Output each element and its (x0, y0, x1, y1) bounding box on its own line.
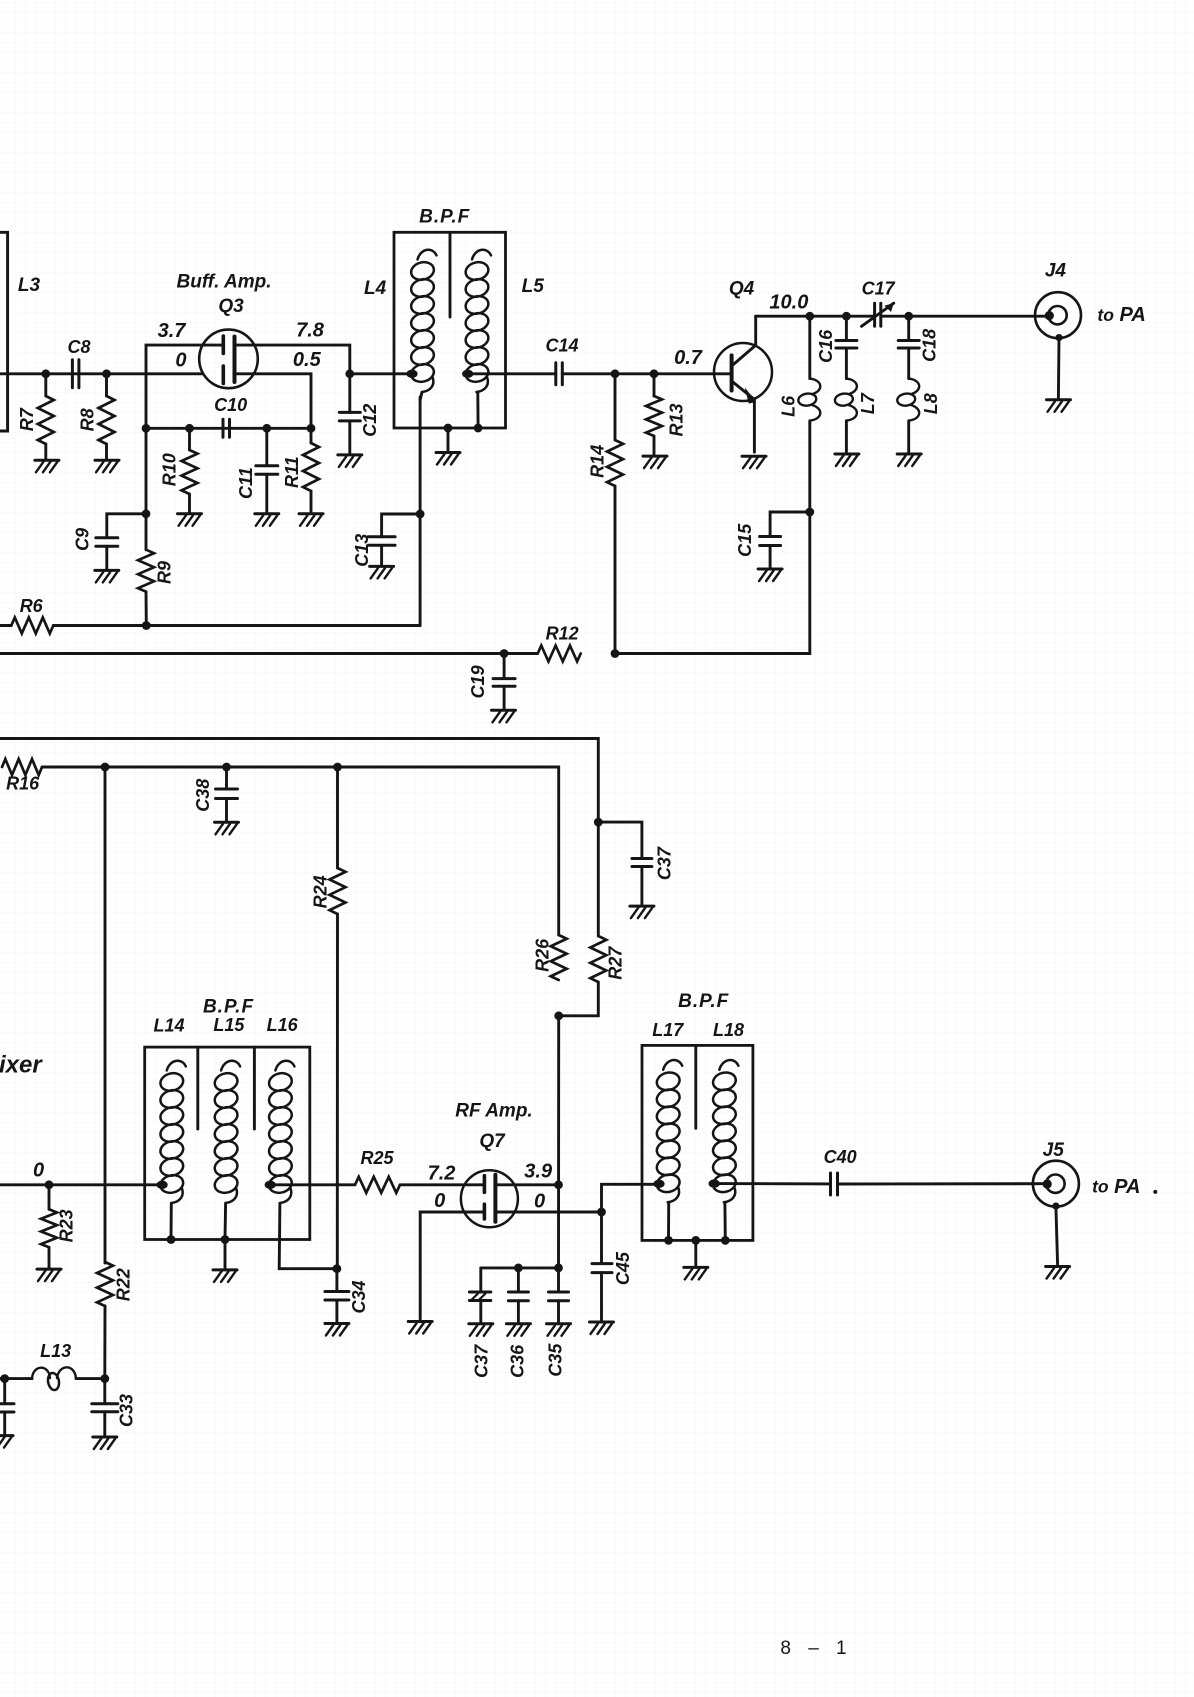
resistor R9 (145, 514, 148, 550)
node C34 (333, 1264, 342, 1273)
capacitor C19 (503, 654, 506, 679)
resistor R13 (653, 374, 656, 396)
wire: riser to C13 / L4 (419, 397, 422, 626)
capacitor C14 (556, 363, 563, 385)
wire: L6 to bias line (615, 512, 810, 654)
capacitor at left edge (3, 1379, 6, 1404)
band pass filter box (L17/L18) (642, 1045, 753, 1240)
BPF2 ground (224, 1240, 227, 1268)
node R23 (45, 1180, 54, 1189)
wire: source lead (0.5) (235, 374, 311, 429)
svg-text:J4: J4 (1045, 261, 1067, 282)
inductor L7 (845, 348, 848, 379)
svg-text:C15: C15 (735, 523, 755, 557)
svg-text:R7: R7 (17, 407, 37, 431)
resistor R16 (2, 759, 42, 775)
svg-text:J5: J5 (1043, 1140, 1065, 1161)
inductor L18 (711, 1060, 738, 1202)
transistor Q4 (NPN) (714, 343, 772, 401)
node C15 (805, 508, 814, 517)
svg-text:L16: L16 (267, 1015, 299, 1035)
ground under C45 (590, 1322, 614, 1334)
inductor L5 (464, 250, 491, 392)
node bias column (101, 763, 110, 772)
svg-text:R13: R13 (666, 403, 686, 436)
node: R7 junction (41, 369, 50, 378)
inductor L6 (808, 316, 811, 378)
capacitor C10 (223, 419, 230, 437)
svg-text:L15: L15 (213, 1015, 245, 1035)
resistor R22 (97, 1262, 113, 1306)
svg-text:0.7: 0.7 (674, 347, 703, 369)
node C13 junction (416, 510, 425, 519)
svg-text:8 – 1: 8 – 1 (780, 1638, 852, 1659)
band pass filter box (L4/L5) (394, 232, 506, 428)
svg-text:C13: C13 (352, 534, 372, 567)
ground under C11 (255, 514, 279, 526)
wire: main line to BPF (350, 372, 412, 375)
resistor R8 (105, 374, 108, 396)
svg-text:L14: L14 (153, 1016, 184, 1036)
capacitor C37 (upper) (598, 822, 642, 858)
trimmer capacitor C17 (873, 303, 876, 326)
svg-text:C18: C18 (920, 329, 940, 362)
node C38 (222, 763, 231, 772)
coupling divider (449, 232, 452, 317)
svg-text:Q7: Q7 (479, 1131, 506, 1152)
BPF ground (444, 424, 453, 433)
ground under C38 (215, 822, 239, 834)
resistor R26 (551, 935, 567, 980)
svg-text:R10: R10 (160, 453, 180, 486)
wire: drain column (557, 1016, 560, 1268)
band pass filter box (L14/L15/L16) (145, 1047, 310, 1239)
node C37 (upper) (594, 818, 603, 827)
wire: gate2 lead (3.7) (146, 345, 223, 428)
svg-text:R12: R12 (546, 624, 579, 644)
svg-text:C9: C9 (73, 528, 93, 551)
node C18 (904, 312, 913, 321)
wire: gate bias column (145, 428, 148, 514)
svg-text:0.5: 0.5 (293, 349, 322, 371)
collector rail 10.0 (756, 315, 875, 318)
L4 bottom lead (420, 392, 422, 400)
node L6 (805, 312, 814, 321)
capacitor C9 (107, 514, 146, 538)
capacitor C18 (907, 316, 910, 340)
resistor R24 (336, 767, 339, 868)
svg-text:R11: R11 (282, 456, 302, 488)
wire: R6 bias line (53, 624, 420, 627)
inductor L14 (159, 1061, 186, 1203)
Q4 collector (732, 316, 756, 366)
ground under C33 (93, 1437, 117, 1449)
box edge of oscillator unit (L3) (0, 232, 8, 431)
capacitor C34 (335, 1269, 338, 1292)
svg-text:C16: C16 (816, 329, 836, 363)
resistor R7 (44, 374, 47, 396)
svg-text:C10: C10 (214, 395, 247, 415)
ground under R11 (299, 514, 323, 526)
svg-text:L8: L8 (921, 393, 941, 414)
svg-text:Mixer: Mixer (0, 1051, 43, 1078)
J5 ground lead (1052, 1203, 1059, 1210)
transistor Q7 (dual-gate FET, RF Amp) (461, 1170, 518, 1227)
ground under C12 (338, 455, 362, 467)
svg-text:3.7: 3.7 (158, 320, 187, 342)
svg-text:7.8: 7.8 (296, 319, 325, 341)
svg-text:L13: L13 (40, 1341, 71, 1361)
svg-text:C38: C38 (193, 779, 213, 812)
resistor R14 (614, 374, 617, 440)
svg-text:R14: R14 (588, 445, 608, 478)
L16 bottom lead (279, 1203, 337, 1268)
ground under C37 (630, 906, 654, 918)
svg-text:C37: C37 (471, 1344, 491, 1378)
svg-text:L18: L18 (713, 1020, 744, 1040)
resistor R10 (188, 428, 191, 450)
ground under C34 (325, 1324, 349, 1336)
ground under R10 (178, 514, 202, 526)
svg-text:R9: R9 (154, 561, 174, 584)
resistor R11 (310, 428, 313, 443)
resistor R27 (597, 822, 600, 936)
capacitor C16 (845, 316, 848, 340)
ground under C19 (492, 710, 516, 722)
svg-text:to PA: to PA (1092, 1176, 1140, 1198)
svg-text:RF Amp.: RF Amp. (455, 1101, 532, 1122)
svg-text:L17: L17 (652, 1020, 684, 1040)
svg-text:Q3: Q3 (218, 296, 244, 317)
J4 ground lead (1055, 334, 1062, 341)
ground under R7 (35, 460, 59, 472)
svg-text:C45: C45 (613, 1251, 633, 1285)
svg-text:R23: R23 (57, 1209, 77, 1242)
svg-text:0: 0 (175, 349, 186, 371)
capacitor C33 (103, 1379, 106, 1404)
svg-text:L3: L3 (18, 275, 41, 296)
node L13/C33 (100, 1374, 109, 1383)
resistor R6 (0, 624, 11, 627)
capacitor C35 (557, 1268, 560, 1292)
svg-text:10.0: 10.0 (769, 291, 808, 313)
svg-text:7.2: 7.2 (428, 1163, 456, 1185)
wire: C10 bias row (146, 427, 311, 430)
capacitor C8 (72, 360, 79, 388)
wire to J5 (838, 1182, 1047, 1185)
svg-text:L5: L5 (522, 276, 545, 297)
capacitor C40 (831, 1173, 838, 1195)
ground under C13 (370, 566, 394, 578)
bypass row under Q7 (481, 1266, 559, 1269)
svg-text:C33: C33 (116, 1394, 136, 1427)
capacitor C45 (600, 1212, 603, 1264)
svg-text:R16: R16 (6, 773, 40, 793)
svg-text:to PA: to PA (1097, 304, 1145, 326)
ground under C37 (469, 1324, 493, 1336)
svg-text:R24: R24 (310, 875, 330, 908)
svg-text:R27: R27 (606, 946, 626, 980)
Q7 source lead (0) (495, 1211, 601, 1214)
wire: BPF2 output (270, 1183, 355, 1186)
svg-text:L7: L7 (858, 392, 878, 414)
BPF3 ground (691, 1236, 700, 1245)
coupling divider (694, 1045, 697, 1128)
svg-text:0: 0 (33, 1159, 44, 1181)
capacitor C36 (517, 1268, 520, 1292)
node R24 (333, 763, 342, 772)
wire: BPF output (468, 372, 556, 375)
capacitor C38 (225, 767, 228, 789)
wire: BPF3 output (714, 1182, 830, 1185)
wire: bias line left (0, 652, 538, 655)
inductor L15 (213, 1061, 240, 1203)
resistor R23 (48, 1185, 51, 1210)
svg-text:C14: C14 (545, 335, 578, 355)
svg-text:C17: C17 (862, 278, 896, 298)
ground under L8 (897, 454, 921, 466)
svg-text:Q4: Q4 (729, 279, 755, 300)
resistor R12 (538, 646, 581, 662)
wire to Q4 (562, 372, 731, 375)
ground under C15 (758, 569, 782, 581)
wire: R22 to L13 (103, 1306, 106, 1379)
ground under R23 (37, 1269, 61, 1281)
node C16 (842, 312, 851, 321)
svg-text:C19: C19 (468, 665, 488, 698)
L5 bottom lead (476, 392, 479, 428)
svg-text:R25: R25 (360, 1148, 394, 1168)
svg-text:C37: C37 (655, 846, 675, 880)
capacitor C13 (382, 514, 421, 537)
wire: drain lead (7.8) (235, 345, 350, 374)
svg-text:R22: R22 (114, 1268, 134, 1301)
node R26/R27 (554, 1011, 563, 1020)
wire: main input line (0, 372, 202, 375)
supply rail (lower) (42, 767, 559, 935)
Q7 gate2 lead to ground (420, 1212, 484, 1320)
connector J5 (1033, 1161, 1079, 1207)
svg-text:C34: C34 (349, 1280, 369, 1313)
svg-text:C35: C35 (546, 1343, 566, 1377)
coupling dividers (196, 1047, 199, 1129)
node: R8 junction (102, 369, 111, 378)
node R14 (611, 369, 620, 378)
svg-text:3.9: 3.9 (524, 1160, 553, 1182)
inductor L4 (409, 250, 436, 392)
node R13 (650, 369, 659, 378)
Q4 emitter w/ arrow (732, 381, 755, 452)
capacitor C12 (348, 374, 351, 413)
wire: bottom main line (0, 1183, 162, 1186)
wire: source to BPF3 (602, 1184, 660, 1212)
svg-text:0: 0 (534, 1191, 545, 1213)
svg-text:C8: C8 (67, 337, 90, 357)
inductor L17 (655, 1060, 682, 1202)
svg-text:R26: R26 (533, 938, 553, 972)
node C19 (500, 649, 509, 658)
ground under R8 (95, 460, 119, 472)
svg-text:C11: C11 (236, 467, 256, 499)
ground under C9 (95, 570, 119, 582)
ground under C35 (547, 1324, 571, 1336)
transistor Q3 (dual-gate FET, Buff Amp) (199, 330, 258, 389)
wire: bias column (to R22) (104, 767, 107, 1263)
inductor L13 (0, 1374, 9, 1383)
inductor L8 (907, 348, 910, 379)
inductor L16 (267, 1061, 294, 1203)
connector J4 (1035, 292, 1081, 338)
svg-text:R6: R6 (20, 596, 44, 616)
ground under L7 (835, 454, 859, 466)
svg-text:C12: C12 (360, 404, 380, 437)
capacitor C11 (265, 428, 268, 466)
ground under Q7 gate2 (408, 1322, 432, 1334)
svg-text:C36: C36 (508, 1344, 528, 1378)
supply rail (upper) (0, 739, 598, 823)
ground under C36 (506, 1324, 530, 1336)
Q7 drain lead (3.9) (495, 1183, 558, 1186)
ground under R13 (643, 456, 667, 468)
capacitor C15 (770, 512, 810, 537)
svg-text:R8: R8 (77, 408, 97, 431)
resistor R25 (355, 1177, 400, 1193)
wire to Q7 (400, 1183, 484, 1186)
svg-text:Buff. Amp.: Buff. Amp. (177, 272, 272, 293)
svg-text:C40: C40 (824, 1147, 857, 1167)
svg-text:L6: L6 (779, 395, 799, 417)
svg-text:0: 0 (434, 1190, 445, 1212)
svg-text:B.P.F: B.P.F (419, 207, 471, 228)
capacitor C37 (feedthrough) (479, 1268, 482, 1292)
svg-text:L4: L4 (364, 278, 387, 299)
svg-text:B.P.F: B.P.F (678, 991, 730, 1012)
ground under Q4 emitter (742, 456, 766, 468)
